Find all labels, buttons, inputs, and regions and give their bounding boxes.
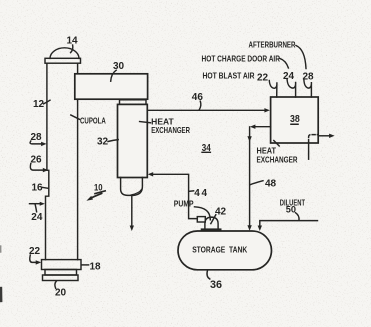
label 20 with leader — [55, 281, 67, 299]
svg-text:48: 48 — [265, 179, 277, 190]
svg-text:32: 32 — [97, 137, 109, 148]
tuyere arrow 24 — [30, 202, 45, 223]
label AFTERBURNER with leader — [249, 40, 307, 69]
label CUPOLA with leader — [71, 115, 106, 126]
svg-text:24: 24 — [31, 212, 43, 223]
svg-text:STORAGE TANK: STORAGE TANK — [192, 245, 247, 255]
coil outlet dashed corner — [309, 135, 318, 143]
svg-text:22: 22 — [257, 73, 269, 84]
label 30 with leader — [111, 61, 125, 81]
air inlet pipe 22 — [269, 81, 277, 98]
label 46 with leader — [192, 92, 204, 110]
tuyere arrow 22 — [29, 246, 41, 265]
svg-text:CUPOLA: CUPOLA — [80, 116, 106, 126]
diluent line 50 — [258, 221, 318, 231]
label HOT CHARGE DOOR AIR with leader — [202, 54, 289, 69]
cupola top collar — [45, 58, 81, 63]
svg-text:36: 36 — [210, 279, 222, 291]
svg-text:28: 28 — [303, 72, 315, 83]
label 36 with leader — [207, 270, 222, 290]
svg-text:38: 38 — [290, 113, 300, 125]
label 44 with leader — [189, 188, 209, 199]
pump 42 base plate — [201, 228, 222, 230]
outlet arrow down — [130, 196, 134, 231]
cupola shell 12 — [46, 63, 78, 259]
label HEAT EXCHANGER (38) with leader — [257, 141, 298, 165]
label 34 — [201, 142, 211, 154]
svg-text:HOT CHARGE DOOR AIR: HOT CHARGE DOOR AIR — [202, 54, 281, 64]
svg-text:16: 16 — [32, 183, 44, 194]
svg-text:PUMP: PUMP — [174, 199, 194, 209]
label 18 with leader — [81, 262, 101, 273]
svg-text:20: 20 — [55, 288, 67, 299]
svg-text:EXCHANGER: EXCHANGER — [257, 155, 298, 165]
svg-text:18: 18 — [90, 262, 102, 273]
label 42 with leader — [211, 207, 227, 224]
flue gas line 46 — [147, 108, 270, 112]
svg-text:10: 10 — [94, 182, 103, 192]
label 16 with leader — [32, 183, 49, 194]
tuyere arrow 26 — [30, 155, 48, 173]
cupola bottom flange 18 — [42, 260, 82, 270]
cupola base plate 20 — [43, 275, 79, 281]
cupola dome 14 — [50, 48, 79, 59]
heat exchanger 32 vessel — [118, 104, 148, 177]
label PUMP with leader — [174, 199, 211, 220]
coil inlet stub — [308, 143, 310, 160]
svg-text:HOT BLAST AIR: HOT BLAST AIR — [203, 71, 255, 81]
label 38 — [290, 113, 300, 125]
label DILUENT 50 with leader — [280, 198, 306, 221]
label 12 with leader — [33, 99, 50, 110]
svg-text:44: 44 — [194, 188, 208, 199]
svg-text:EXCHANGER: EXCHANGER — [151, 125, 190, 135]
coil outlet arrow — [318, 134, 334, 138]
label HEAT EXCHANGER (32) with leader — [140, 117, 190, 135]
svg-text:30: 30 — [113, 61, 125, 72]
pump 42 inlet flange — [197, 217, 205, 222]
svg-text:42: 42 — [215, 207, 227, 218]
svg-text:50: 50 — [286, 204, 296, 214]
svg-text:24: 24 — [283, 71, 295, 82]
condensate line 48 — [247, 125, 270, 231]
svg-text:AFTERBURNER: AFTERBURNER — [249, 40, 296, 50]
label 32 with leader — [97, 137, 118, 148]
svg-text:46: 46 — [192, 92, 204, 103]
svg-text:26: 26 — [31, 155, 43, 166]
nozzle inner lip — [131, 189, 142, 195]
heat exchanger 32 cap — [120, 100, 147, 105]
oil return line 44 — [148, 172, 198, 219]
heat exchanger 32 outlet nozzle — [121, 178, 143, 196]
storage tank 36 — [178, 231, 272, 270]
label 14 with leader — [67, 36, 79, 53]
afterburner box 38 — [271, 97, 319, 143]
air inlet pipe 24 — [287, 80, 296, 98]
duct 30 — [75, 74, 148, 99]
tuyere arrow 28 — [30, 132, 47, 146]
pump 42 dome — [205, 217, 218, 229]
label HOT BLAST AIR 22 — [203, 71, 269, 84]
cupola base ring — [45, 270, 77, 276]
scan edge mark — [0, 246, 2, 301]
label 48 with leader — [250, 179, 276, 190]
air inlet pipe 28 — [304, 80, 312, 97]
svg-text:12: 12 — [33, 99, 45, 110]
svg-text:28: 28 — [31, 132, 43, 143]
figure pointer 10 — [86, 182, 105, 200]
